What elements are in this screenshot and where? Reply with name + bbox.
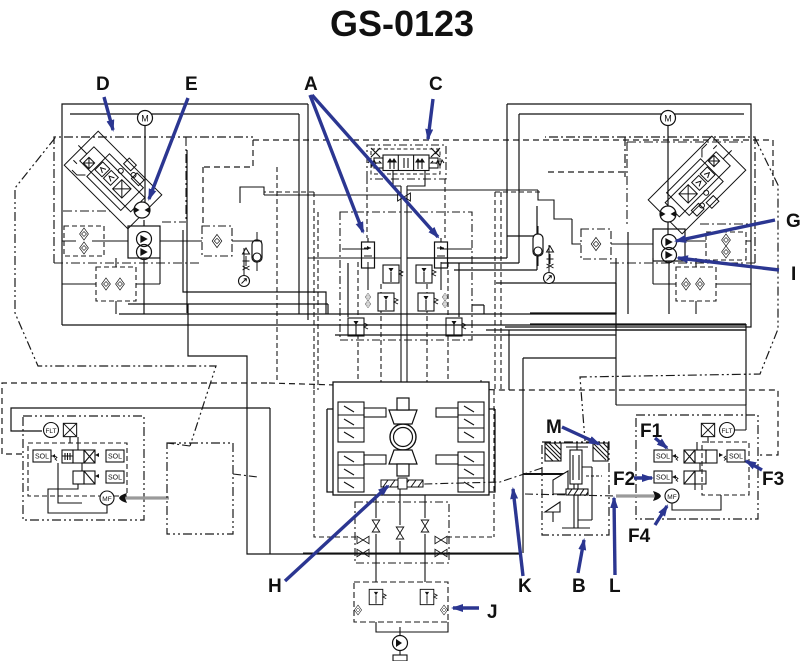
svg-text:F1: F1 [640,421,663,442]
svg-text:F4: F4 [628,526,651,547]
svg-text:I: I [791,264,796,285]
svg-text:F2: F2 [613,469,635,490]
svg-text:C: C [429,74,443,95]
svg-text:MF: MF [102,496,111,503]
svg-text:K: K [518,576,532,597]
svg-text:FLT: FLT [45,428,56,435]
svg-text:FLT: FLT [721,428,732,435]
svg-text:H: H [268,576,282,597]
svg-text:M: M [141,114,149,124]
svg-text:GS-0123: GS-0123 [330,3,474,44]
svg-text:F3: F3 [762,469,784,490]
svg-text:M: M [664,114,672,124]
svg-text:D: D [96,74,110,95]
svg-text:A: A [304,74,318,95]
svg-text:M: M [546,417,562,438]
svg-text:E: E [185,74,198,95]
svg-text:J: J [487,602,498,623]
svg-text:G: G [786,211,800,232]
svg-text:MF: MF [667,494,676,501]
svg-text:L: L [609,576,621,597]
svg-text:B: B [572,576,586,597]
